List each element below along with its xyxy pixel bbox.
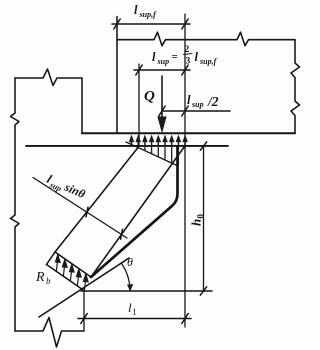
- svg-text:/2: /2: [207, 94, 219, 109]
- dim line l_sup sin(theta): [33, 178, 127, 239]
- stress diagram baseline R_b: [47, 265, 83, 290]
- strut bottom face: [55, 252, 91, 277]
- svg-text:sup,f: sup,f: [199, 57, 218, 66]
- bearing pressure arrows row: [129, 135, 188, 147]
- svg-text:sup: sup: [157, 57, 170, 66]
- svg-text:sup: sup: [191, 100, 204, 109]
- strut left edge: [55, 147, 139, 253]
- svg-text:l: l: [152, 50, 156, 64]
- tick l_sup/2 left: [159, 106, 165, 116]
- extension line l1 left: [83, 288, 85, 331]
- tick l1 left: [81, 314, 87, 324]
- tick l_sup/2 right: [182, 106, 188, 116]
- tick h0 bottom: [200, 287, 206, 295]
- arrowhead of load Q: [157, 117, 166, 134]
- wedge bottom line under bearing: [126, 142, 177, 166]
- svg-text:R: R: [35, 270, 45, 285]
- dim line l_sup/2: [162, 110, 230, 112]
- tick l_sup,f right: [182, 19, 188, 29]
- stress diagram left closing edge: [47, 252, 56, 265]
- label l_sup sin(theta), rotated: [44, 172, 88, 203]
- tick l1 right: [182, 314, 188, 324]
- wall right edge: [81, 78, 83, 133]
- svg-text:sup,f: sup,f: [139, 10, 158, 19]
- beam right edge with two break jogs: [291, 40, 300, 133]
- tick l_sup left: [136, 65, 142, 75]
- support ledge line (long horizontal): [26, 145, 228, 147]
- svg-text:3: 3: [186, 57, 191, 67]
- wall left edge with two break jogs: [11, 78, 20, 331]
- extension line x=139: [138, 64, 140, 146]
- dim line l_sup,f: [112, 23, 190, 25]
- dim line l1: [78, 318, 191, 320]
- strut right edge: [91, 147, 185, 278]
- svg-text:1: 1: [132, 307, 137, 317]
- theta angle arc: [122, 264, 130, 291]
- beam top edge with two break marks: [117, 32, 295, 46]
- bent bar (thick line): inclined + elbow + vertical: [91, 147, 178, 278]
- wall bottom edge with break: [15, 318, 84, 348]
- dim line l_sup: [134, 69, 190, 71]
- svg-text:h: h: [189, 219, 204, 226]
- svg-text:=: =: [172, 51, 178, 63]
- svg-text:0: 0: [196, 214, 206, 219]
- wall top edge with break: [15, 69, 82, 86]
- hatch strokes in wedge under bearing: [145, 147, 179, 165]
- tick h0 top: [200, 142, 206, 150]
- tick l_sup right: [182, 65, 188, 75]
- theta arc arrowhead: [127, 284, 133, 292]
- dim line h0: [203, 146, 205, 291]
- tick on strut right edge: [121, 229, 123, 239]
- svg-text:l: l: [134, 3, 138, 17]
- tick on strut left edge: [86, 207, 88, 217]
- R_b stress arrows at strut bottom: [56, 255, 89, 291]
- inclined crack line: [39, 258, 129, 317]
- svg-text:sup: sup: [48, 180, 63, 193]
- tick l_sup,f left: [114, 19, 120, 29]
- load Q shaft: [161, 76, 163, 117]
- extension line right (long, shared): [184, 14, 186, 327]
- svg-text:b: b: [46, 276, 51, 286]
- svg-text:θ: θ: [127, 255, 133, 269]
- svg-text:Q: Q: [144, 89, 155, 105]
- bottom corner level line: [81, 290, 212, 292]
- beam bottom / bearing line: [82, 132, 295, 134]
- beam end face (left edge) + extension above: [116, 17, 118, 134]
- svg-text:l: l: [187, 93, 191, 107]
- label h0, rotated: [189, 214, 206, 227]
- svg-text:l: l: [195, 50, 199, 64]
